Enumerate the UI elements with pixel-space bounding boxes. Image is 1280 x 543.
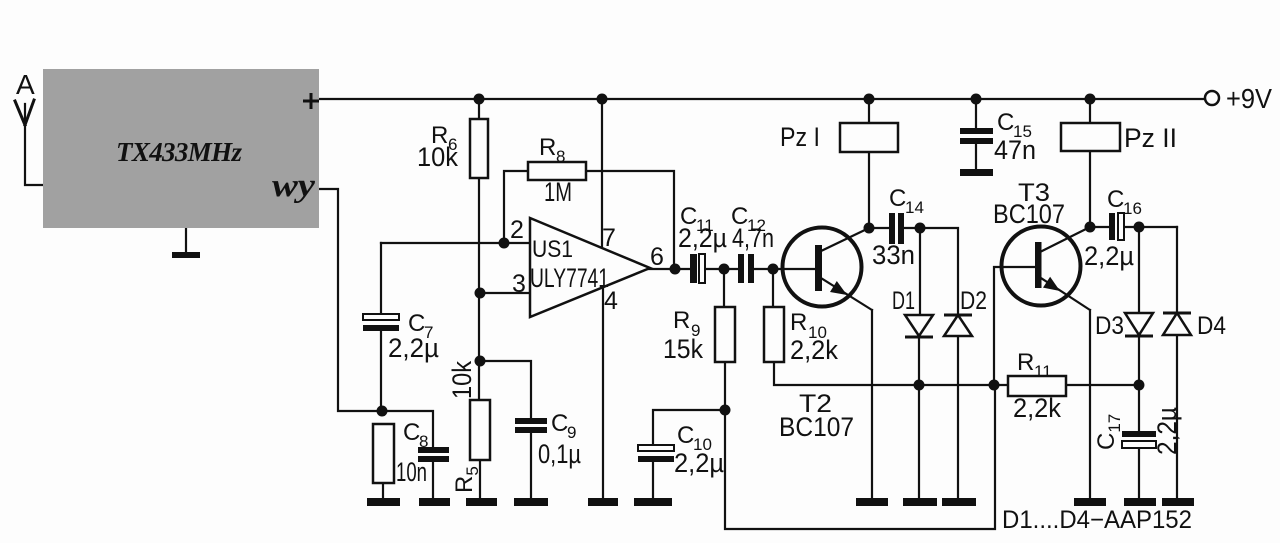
svg-text:C: C [403, 419, 420, 446]
svg-text:BC107: BC107 [779, 412, 854, 442]
svg-text:D2: D2 [960, 287, 987, 315]
svg-text:8: 8 [556, 147, 565, 166]
svg-text:Pz I: Pz I [780, 122, 820, 152]
svg-text:4,7n: 4,7n [732, 223, 774, 253]
svg-text:ULY7741: ULY7741 [530, 263, 609, 293]
svg-text:D4: D4 [1197, 312, 1226, 340]
svg-text:8: 8 [419, 432, 428, 451]
svg-text:16: 16 [1123, 199, 1142, 218]
svg-text:C: C [889, 185, 906, 212]
svg-text:10k: 10k [417, 142, 458, 172]
svg-text:D1: D1 [892, 287, 915, 315]
svg-text:A: A [16, 69, 35, 100]
svg-text:2,2k: 2,2k [1013, 393, 1061, 423]
svg-text:47n: 47n [994, 135, 1036, 165]
svg-text:2,2µ: 2,2µ [1084, 241, 1134, 271]
svg-text:wy: wy [272, 168, 315, 204]
svg-text:C: C [1107, 186, 1124, 213]
svg-text:2,2µ: 2,2µ [678, 223, 727, 253]
svg-text:7: 7 [602, 224, 616, 252]
svg-text:TX433MHz: TX433MHz [116, 137, 242, 167]
svg-text:1M: 1M [544, 177, 572, 207]
svg-text:R: R [1017, 349, 1034, 376]
svg-text:14: 14 [905, 198, 924, 217]
svg-text:Pz II: Pz II [1124, 123, 1177, 153]
svg-text:11: 11 [1034, 362, 1052, 381]
svg-text:10n: 10n [396, 457, 427, 487]
svg-text:2,2µ: 2,2µ [388, 333, 439, 363]
svg-text:2,2µ: 2,2µ [1152, 407, 1182, 455]
svg-text:2,2k: 2,2k [790, 335, 838, 365]
svg-text:US1: US1 [532, 236, 573, 263]
svg-text:C: C [551, 410, 568, 437]
svg-text:33n: 33n [872, 240, 915, 270]
svg-text:D1....D4−AAP152: D1....D4−AAP152 [1002, 506, 1192, 534]
svg-text:C: C [677, 422, 694, 449]
svg-text:BC107: BC107 [993, 199, 1065, 229]
svg-text:3: 3 [512, 270, 526, 298]
svg-text:R: R [539, 134, 556, 161]
svg-text:2,2µ: 2,2µ [674, 448, 724, 478]
svg-text:D3: D3 [1095, 312, 1124, 340]
svg-text:15k: 15k [663, 334, 703, 364]
svg-text:+9V: +9V [1226, 83, 1272, 114]
svg-text:R: R [673, 307, 690, 334]
svg-text:C: C [997, 109, 1014, 136]
svg-text:R: R [790, 309, 807, 336]
svg-text:2: 2 [510, 216, 524, 244]
svg-text:6: 6 [650, 243, 664, 271]
svg-text:0,1µ: 0,1µ [538, 439, 581, 469]
svg-text:10k: 10k [447, 361, 477, 399]
